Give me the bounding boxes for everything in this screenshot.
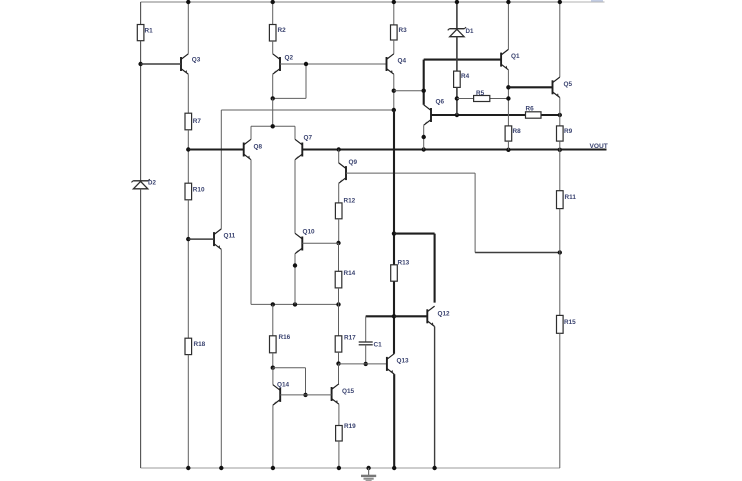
svg-text:R8: R8 (513, 128, 522, 135)
svg-text:R3: R3 (399, 27, 408, 34)
svg-text:Q8: Q8 (254, 144, 263, 151)
svg-text:R2: R2 (278, 27, 287, 34)
svg-text:R4: R4 (461, 73, 470, 80)
svg-text:VOUT: VOUT (590, 143, 608, 150)
svg-text:R1: R1 (145, 28, 154, 35)
svg-text:Q15: Q15 (342, 388, 355, 395)
svg-text:R6: R6 (526, 106, 535, 113)
svg-text:Q10: Q10 (303, 229, 316, 236)
svg-text:R13: R13 (398, 260, 410, 267)
svg-text:D1: D1 (466, 28, 474, 35)
svg-text:R12: R12 (344, 198, 356, 205)
svg-text:R15: R15 (564, 319, 576, 326)
svg-text:R14: R14 (344, 270, 356, 277)
svg-text:R19: R19 (344, 423, 356, 430)
svg-text:Q14: Q14 (277, 382, 290, 389)
svg-text:R11: R11 (565, 194, 577, 201)
svg-text:R17: R17 (344, 335, 356, 342)
svg-text:R9: R9 (564, 128, 573, 135)
svg-text:Q6: Q6 (436, 99, 445, 106)
svg-text:Q1: Q1 (511, 53, 520, 60)
svg-text:R18: R18 (194, 341, 206, 348)
svg-text:Q5: Q5 (564, 81, 573, 88)
svg-text:Q13: Q13 (397, 358, 410, 365)
svg-text:R7: R7 (193, 118, 202, 125)
svg-text:Q4: Q4 (398, 58, 407, 65)
svg-text:R16: R16 (279, 334, 291, 341)
svg-text:Q3: Q3 (192, 57, 201, 64)
svg-text:C1: C1 (374, 342, 383, 349)
svg-text:Q11: Q11 (224, 233, 236, 240)
svg-text:R5: R5 (476, 90, 485, 97)
svg-text:R10: R10 (193, 187, 205, 194)
svg-text:D2: D2 (148, 180, 156, 187)
svg-text:Q12: Q12 (438, 311, 451, 318)
svg-text:Q7: Q7 (304, 135, 313, 142)
svg-text:Q2: Q2 (285, 55, 294, 62)
svg-text:Q9: Q9 (349, 159, 358, 166)
